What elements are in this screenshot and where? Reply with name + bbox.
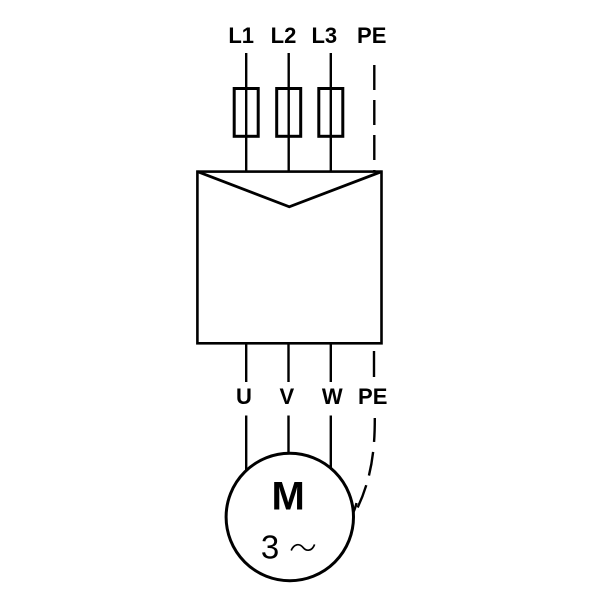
wire L1	[245, 53, 247, 172]
motor M1 circle	[226, 453, 353, 580]
wire PE tail at motor edge	[354, 503, 357, 512]
svg-text:PE: PE	[357, 23, 386, 48]
wire W upper	[330, 343, 332, 382]
wire V lower	[287, 416, 289, 457]
svg-text:3: 3	[261, 529, 279, 566]
svg-text:PE: PE	[358, 384, 387, 409]
motor label ~ (sine symbol)	[291, 544, 314, 550]
wire U lower	[245, 416, 247, 473]
svg-text:L3: L3	[311, 23, 337, 48]
wire L2	[288, 53, 290, 172]
wire PE top (dashed)	[373, 65, 375, 171]
wire PE lower (dashed curve to motor)	[356, 418, 375, 512]
svg-text:W: W	[322, 384, 343, 409]
fuse F2	[277, 89, 301, 137]
wire W lower	[330, 416, 332, 472]
wire PE middle (dash)	[373, 351, 375, 377]
wire U upper	[245, 343, 247, 382]
fuse F1	[234, 89, 258, 137]
svg-text:L1: L1	[228, 23, 254, 48]
wire V upper	[287, 343, 289, 382]
wire L3	[330, 53, 332, 172]
svg-text:V: V	[279, 384, 294, 409]
chevron inside box	[197, 172, 381, 207]
fuse F3	[319, 89, 343, 137]
svg-text:M: M	[272, 474, 305, 518]
svg-text:L2: L2	[271, 23, 297, 48]
soft starter box U1	[197, 172, 381, 344]
svg-text:U: U	[236, 384, 252, 409]
